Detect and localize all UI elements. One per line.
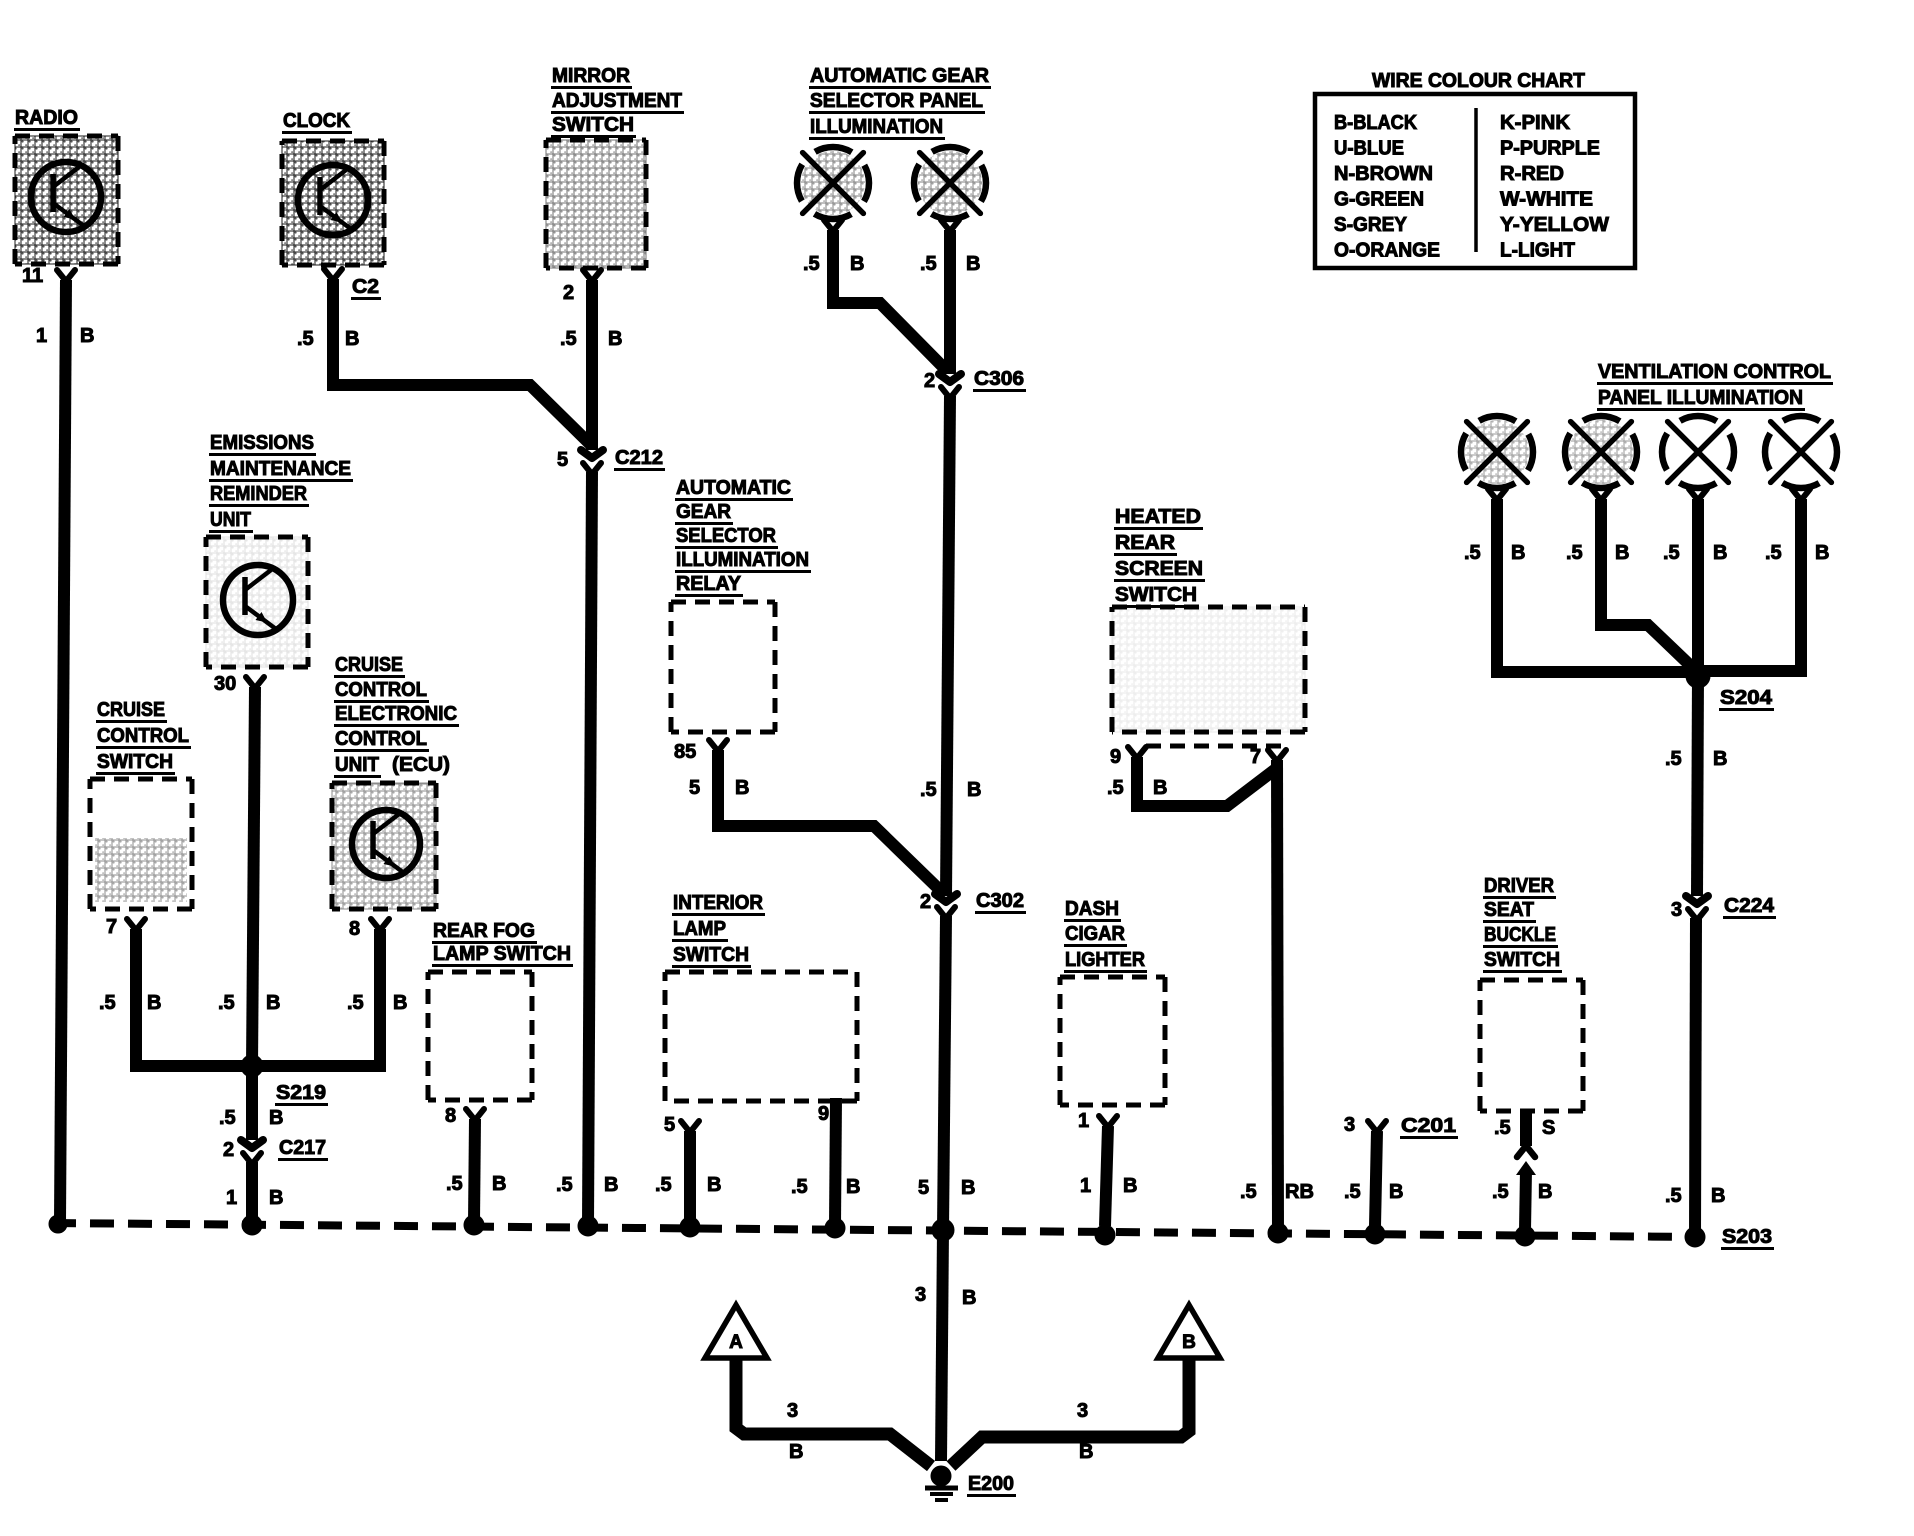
svg-text:.5: .5 <box>1494 1117 1511 1139</box>
svg-text:B: B <box>269 1107 283 1129</box>
svg-text:.5: .5 <box>297 328 314 350</box>
svg-text:1: 1 <box>226 1187 237 1209</box>
svg-text:C212: C212 <box>615 447 663 469</box>
svg-text:CRUISE: CRUISE <box>335 654 403 676</box>
wire C306 to C302, .5 B <box>946 396 950 896</box>
wire cruise ECU to junction S219, .5 B <box>252 929 380 1066</box>
inline splice connector (buckle switch) <box>1516 1147 1536 1175</box>
svg-text:8: 8 <box>445 1105 456 1127</box>
wire C201 to bus, .5 B <box>1375 1131 1377 1226</box>
svg-text:AUTOMATIC GEAR: AUTOMATIC GEAR <box>810 65 990 87</box>
wire pin9 loop to pin7, .5 B <box>1137 757 1277 806</box>
component DASH CIGAR LIGHTER <box>1060 898 1165 1105</box>
svg-text:RADIO: RADIO <box>15 107 78 129</box>
svg-text:30: 30 <box>214 673 236 695</box>
svg-text:B: B <box>1538 1181 1552 1203</box>
vent lamp 1 <box>1461 416 1533 499</box>
bus junction dot (main ground feed) <box>932 1219 954 1241</box>
svg-text:RB: RB <box>1285 1181 1314 1203</box>
svg-text:SWITCH: SWITCH <box>673 944 749 966</box>
wire label .5 S (buckle upper) <box>1494 1117 1555 1139</box>
wire node A to ground E200, 3 B <box>736 1356 931 1466</box>
bus wire S203 (dashed ground distribution) <box>52 1223 1700 1237</box>
svg-text:B: B <box>961 1177 975 1199</box>
component AUTOMATIC GEAR SELECTOR ILLUMINATION RELAY <box>671 477 811 732</box>
svg-text:UNIT: UNIT <box>335 754 379 776</box>
vent lamp 2 <box>1565 416 1637 499</box>
wire label .5 B (C212 to bus) <box>556 1174 618 1196</box>
svg-text:85: 85 <box>674 741 696 763</box>
svg-text:B: B <box>1079 1441 1093 1463</box>
svg-text:2: 2 <box>223 1139 234 1161</box>
svg-text:PANEL ILLUMINATION: PANEL ILLUMINATION <box>1598 387 1803 409</box>
wire emissions unit to junction S219, .5 B <box>252 687 255 1066</box>
svg-text:3: 3 <box>1077 1400 1088 1422</box>
svg-text:9: 9 <box>818 1103 829 1125</box>
svg-text:SWITCH: SWITCH <box>1484 949 1560 971</box>
svg-text:.5: .5 <box>1492 1181 1509 1203</box>
svg-text:.5: .5 <box>1464 542 1481 564</box>
component INTERIOR LAMP SWITCH <box>665 892 857 1101</box>
svg-text:DRIVER: DRIVER <box>1484 875 1555 897</box>
svg-text:B: B <box>608 328 622 350</box>
wire bus junction to ground E200, 3 B <box>941 1230 943 1461</box>
ground E200 <box>925 1466 1016 1500</box>
wire vent lamp3 to junction S204, .5 B <box>1692 499 1704 670</box>
wire label .5 B (lamp1) <box>803 253 864 275</box>
wire label .5 B (clock) <box>297 328 359 350</box>
wire label 1 B (C217 to bus) <box>226 1187 283 1209</box>
svg-text:LAMP: LAMP <box>673 918 726 940</box>
svg-text:INTERIOR: INTERIOR <box>673 892 764 914</box>
svg-text:(ECU): (ECU) <box>392 754 450 776</box>
bus dot at C217 wire <box>242 1215 262 1235</box>
svg-text:2: 2 <box>920 891 931 913</box>
svg-text:B: B <box>962 1287 976 1309</box>
svg-text:B: B <box>1389 1181 1403 1203</box>
component RADIO <box>14 107 118 264</box>
bus dot at C201 wire <box>1365 1224 1385 1244</box>
svg-text:B: B <box>1713 542 1727 564</box>
svg-text:C201: C201 <box>1401 1115 1456 1137</box>
connector C302 <box>920 890 1026 917</box>
svg-text:5: 5 <box>918 1177 929 1199</box>
wire radio pin 11 to bus S203 <box>60 280 66 1222</box>
wire label .5 B (cruise switch) <box>99 992 161 1014</box>
wire label .5 B (C201) <box>1344 1181 1403 1203</box>
svg-text:B: B <box>1713 748 1727 770</box>
svg-text:P-PURPLE: P-PURPLE <box>1500 138 1600 160</box>
svg-text:5: 5 <box>557 449 568 471</box>
component VENTILATION CONTROL PANEL ILLUMINATION lamps <box>1597 361 1833 410</box>
wire label .5 B (interior pin9) <box>791 1176 860 1198</box>
svg-text:.5: .5 <box>219 1107 236 1129</box>
svg-text:B: B <box>393 992 407 1014</box>
wire interior lamp pin5 to bus, .5 B <box>684 1131 696 1224</box>
svg-text:REMINDER: REMINDER <box>210 483 308 505</box>
svg-text:LIGHTER: LIGHTER <box>1065 949 1146 971</box>
svg-text:BUCKLE: BUCKLE <box>1484 924 1556 946</box>
component CLOCK <box>282 110 384 265</box>
svg-text:.5: .5 <box>655 1174 672 1196</box>
svg-text:.5: .5 <box>920 779 937 801</box>
wire S204 to connector C224, .5 B <box>1697 674 1698 896</box>
svg-text:RELAY: RELAY <box>676 573 742 595</box>
wire label 3 B (node A to ground) <box>787 1400 803 1463</box>
svg-text:Y-YELLOW: Y-YELLOW <box>1500 214 1609 236</box>
svg-text:.5: .5 <box>99 992 116 1014</box>
wire label 3 B (node B to ground) <box>1077 1400 1093 1463</box>
wire S219 to connector C217, .5 B <box>246 1066 258 1140</box>
pin 9 (heated rear screen switch) <box>1110 746 1146 768</box>
svg-text:SEAT: SEAT <box>1484 899 1534 921</box>
wire label .5 B (C306 to C302) <box>920 779 981 801</box>
wire label 5 B (relay) <box>689 777 749 799</box>
bus dot at cigar lighter wire <box>1095 1225 1115 1245</box>
wire labels .5 B (vent lamps) <box>1464 542 1829 564</box>
svg-text:SCREEN: SCREEN <box>1115 558 1203 580</box>
connector C212 <box>557 447 665 473</box>
pin 30 (emissions unit) <box>214 673 264 695</box>
wire label 1 B (cigar lighter) <box>1080 1175 1137 1197</box>
svg-text:B: B <box>1153 777 1167 799</box>
svg-text:REAR: REAR <box>1115 532 1176 554</box>
wire buckle splice to bus, .5 B <box>1525 1170 1526 1230</box>
svg-text:S: S <box>1542 1117 1555 1139</box>
svg-text:ILLUMINATION: ILLUMINATION <box>810 116 943 138</box>
svg-text:3: 3 <box>915 1284 926 1306</box>
svg-text:.5: .5 <box>556 1174 573 1196</box>
connector C306 <box>924 368 1026 397</box>
wire label .5 B (cruise ECU) <box>347 992 407 1014</box>
pin 7 (cruise control switch) <box>106 916 145 938</box>
lamp 1 (gear selector panel illumination) <box>797 147 869 230</box>
wire mirror switch to connector C212, .5 B <box>586 280 598 450</box>
pin 8 (rear fog lamp switch) <box>445 1105 484 1127</box>
svg-text:B: B <box>266 992 280 1014</box>
svg-text:B: B <box>850 253 864 275</box>
svg-text:.5: .5 <box>218 992 235 1014</box>
svg-text:B: B <box>147 992 161 1014</box>
svg-text:S219: S219 <box>276 1082 326 1104</box>
svg-text:5: 5 <box>689 777 700 799</box>
svg-text:.5: .5 <box>803 253 820 275</box>
wire C217 to bus S203, 1 B <box>246 1162 258 1224</box>
component MIRROR ADJUSTMENT SWITCH <box>546 65 684 268</box>
wire label .5 B (buckle lower) <box>1492 1181 1552 1203</box>
wire label .5 B (lamp2) <box>920 253 980 275</box>
node S203 (bus right end) <box>1685 1226 1774 1249</box>
svg-text:1: 1 <box>36 325 47 347</box>
svg-text:G-GREEN: G-GREEN <box>1334 189 1424 211</box>
wire lamp2 to C306, .5 B <box>944 230 956 374</box>
svg-text:B: B <box>1711 1185 1725 1207</box>
svg-text:.5: .5 <box>791 1176 808 1198</box>
svg-text:.5: .5 <box>1665 1185 1682 1207</box>
svg-text:.5: .5 <box>1107 777 1124 799</box>
wire rear fog switch to bus S203, .5 B <box>474 1119 475 1222</box>
wire pin7 to bus S203, .5 RB <box>1277 760 1278 1230</box>
svg-text:7: 7 <box>106 916 117 938</box>
svg-text:7: 7 <box>1250 746 1261 768</box>
wire label 1 B (radio) <box>36 325 94 347</box>
svg-text:O-ORANGE: O-ORANGE <box>1334 240 1440 262</box>
wire node B to ground E200, 3 B <box>951 1356 1189 1466</box>
bus dot at heated rear screen wire <box>1268 1223 1288 1243</box>
svg-text:B: B <box>967 779 981 801</box>
svg-text:EMISSIONS: EMISSIONS <box>210 432 314 454</box>
svg-text:ILLUMINATION: ILLUMINATION <box>676 549 809 571</box>
component REAR FOG LAMP SWITCH <box>428 920 573 1100</box>
lamp 2 (gear selector panel illumination) <box>914 147 986 230</box>
component AUTOMATIC GEAR SELECTOR PANEL ILLUMINATION lamps <box>809 65 991 139</box>
svg-text:3: 3 <box>1344 1114 1355 1136</box>
svg-text:B: B <box>1123 1175 1137 1197</box>
wire label .5 B (rear fog) <box>446 1173 506 1195</box>
pin 85 (relay) <box>674 740 727 763</box>
component EMISSIONS MAINTENANCE REMINDER UNIT <box>206 432 353 667</box>
wire cruise switch to junction S219, .5 B <box>136 929 252 1066</box>
svg-text:2: 2 <box>924 370 935 392</box>
svg-text:3: 3 <box>1671 899 1682 921</box>
wire dash cigar lighter to bus, 1 B <box>1105 1126 1108 1226</box>
connector C224 <box>1671 895 1776 921</box>
wire lamp1 to C306, .5 B <box>833 230 948 372</box>
svg-text:B: B <box>966 253 980 275</box>
pin 7 (heated rear screen switch) <box>1250 746 1286 768</box>
svg-text:SWITCH: SWITCH <box>97 751 173 773</box>
svg-text:REAR FOG: REAR FOG <box>433 920 535 942</box>
wire C212 to bus S203, .5 B <box>588 472 592 1224</box>
svg-text:C302: C302 <box>976 890 1024 912</box>
wire colour chart <box>1315 70 1635 268</box>
svg-text:MIRROR: MIRROR <box>552 65 631 87</box>
svg-text:B: B <box>1615 542 1629 564</box>
svg-text:.5: .5 <box>1663 542 1680 564</box>
wire C302 to bus junction, 5 B <box>943 916 946 1230</box>
svg-text:HEATED: HEATED <box>1115 506 1201 528</box>
svg-text:ELECTRONIC: ELECTRONIC <box>335 703 457 725</box>
svg-text:SELECTOR PANEL: SELECTOR PANEL <box>810 90 983 112</box>
bus dot at interior pin5 wire <box>680 1217 700 1237</box>
wire label 3 B (to ground) <box>915 1284 976 1309</box>
pin 5 (interior lamp switch) <box>664 1114 699 1136</box>
svg-text:S204: S204 <box>1720 687 1773 709</box>
svg-text:VENTILATION CONTROL: VENTILATION CONTROL <box>1598 361 1831 383</box>
wire label .5 B (emissions) <box>218 992 280 1014</box>
svg-text:11: 11 <box>22 265 43 287</box>
wire interior lamp pin9 to bus, .5 B <box>835 1098 836 1225</box>
component DRIVER SEAT BUCKLE SWITCH <box>1480 875 1583 1111</box>
svg-text:C224: C224 <box>1724 895 1775 917</box>
pin 1 (dash cigar lighter) <box>1078 1110 1117 1132</box>
svg-text:CRUISE: CRUISE <box>97 699 165 721</box>
svg-text:CLOCK: CLOCK <box>283 110 351 132</box>
svg-text:C2: C2 <box>352 276 379 298</box>
svg-text:B: B <box>269 1187 283 1209</box>
svg-text:SWITCH: SWITCH <box>552 114 634 136</box>
wire label .5 B (S219 to C217) <box>219 1107 283 1129</box>
wire label .5 B (S204 to C224) <box>1665 748 1727 770</box>
svg-text:CONTROL: CONTROL <box>97 725 189 747</box>
connector C217 <box>223 1137 328 1163</box>
bus dot at buckle wire <box>1515 1226 1535 1246</box>
svg-text:W-WHITE: W-WHITE <box>1500 189 1593 211</box>
junction S204 <box>1686 664 1774 710</box>
svg-text:CIGAR: CIGAR <box>1065 923 1126 945</box>
vent lamp 4 <box>1765 416 1837 499</box>
svg-text:B: B <box>345 328 359 350</box>
svg-text:B: B <box>492 1173 506 1195</box>
svg-text:DASH: DASH <box>1065 898 1119 920</box>
svg-text:.5: .5 <box>560 328 577 350</box>
svg-text:.5: .5 <box>1344 1181 1361 1203</box>
wire vent lamp2 to junction S204, .5 B <box>1601 499 1695 670</box>
svg-text:B: B <box>604 1174 618 1196</box>
component CRUISE CONTROL SWITCH <box>90 699 192 909</box>
wire label .5 B (C224 to bus) <box>1665 1185 1725 1207</box>
svg-text:GEAR: GEAR <box>676 501 732 523</box>
svg-text:ADJUSTMENT: ADJUSTMENT <box>552 90 682 112</box>
svg-text:1: 1 <box>1080 1175 1091 1197</box>
pin 8 (cruise ECU) <box>349 918 389 940</box>
svg-text:.5: .5 <box>1566 542 1583 564</box>
component CRUISE CONTROL ELECTRONIC CONTROL UNIT (ECU) <box>332 654 459 909</box>
wire label .5 B (heated rear screen) <box>1107 777 1167 799</box>
wire clock to connector C212, .5 B <box>333 279 592 446</box>
bus dot at rear fog wire <box>464 1215 484 1235</box>
wire label .5 RB (heated rear screen to bus) <box>1240 1181 1314 1203</box>
svg-text:MAINTENANCE: MAINTENANCE <box>210 458 351 480</box>
svg-text:B: B <box>1815 542 1829 564</box>
svg-text:B: B <box>1511 542 1525 564</box>
svg-text:.5: .5 <box>920 253 937 275</box>
svg-text:WIRE COLOUR CHART: WIRE COLOUR CHART <box>1372 70 1585 92</box>
wire relay 85 to C302, 5 B <box>718 750 945 895</box>
svg-text:8: 8 <box>349 918 360 940</box>
svg-text:3: 3 <box>787 1400 798 1422</box>
wire label 5 B (C302 to bus) <box>918 1177 975 1199</box>
wire label .5 B (mirror) <box>560 328 622 350</box>
svg-text:E200: E200 <box>968 1473 1014 1495</box>
component HEATED REAR SCREEN SWITCH <box>1112 506 1305 746</box>
svg-text:2: 2 <box>563 282 574 304</box>
svg-text:S-GREY: S-GREY <box>1334 214 1408 236</box>
svg-text:1: 1 <box>1078 1110 1089 1132</box>
node A (sheet link triangle) <box>705 1305 767 1358</box>
svg-text:CONTROL: CONTROL <box>335 728 427 750</box>
svg-text:B: B <box>735 777 749 799</box>
svg-text:.5: .5 <box>1665 748 1682 770</box>
node B (sheet link triangle) <box>1158 1305 1220 1358</box>
svg-text:C306: C306 <box>974 368 1024 390</box>
wire C224 to bus S203, .5 B <box>1695 918 1696 1235</box>
svg-text:R-RED: R-RED <box>1500 163 1564 185</box>
svg-text:9: 9 <box>1110 746 1121 768</box>
svg-text:K-PINK: K-PINK <box>1500 112 1571 134</box>
svg-text:AUTOMATIC: AUTOMATIC <box>676 477 791 499</box>
svg-text:U-BLUE: U-BLUE <box>1334 138 1404 160</box>
svg-text:SELECTOR: SELECTOR <box>676 525 777 547</box>
svg-text:.5: .5 <box>446 1173 463 1195</box>
wire buckle switch upper, .5 S <box>1520 1111 1532 1146</box>
pin 2 (mirror adjustment switch) <box>563 270 601 304</box>
wire label .5 B (interior pin5) <box>655 1174 721 1196</box>
svg-text:B: B <box>789 1441 803 1463</box>
svg-text:N-BROWN: N-BROWN <box>1334 163 1433 185</box>
svg-text:.5: .5 <box>347 992 364 1014</box>
svg-text:C217: C217 <box>279 1137 326 1159</box>
bus dot at interior pin9 wire <box>825 1218 845 1238</box>
svg-text:A: A <box>729 1332 743 1353</box>
svg-text:B-BLACK: B-BLACK <box>1334 112 1418 134</box>
svg-text:SWITCH: SWITCH <box>1115 584 1197 606</box>
pin 11 (radio) <box>22 265 75 287</box>
vent lamp 3 <box>1662 416 1734 499</box>
svg-text:B: B <box>846 1176 860 1198</box>
connector C201 pigtail <box>1344 1114 1458 1138</box>
svg-text:B: B <box>80 325 94 347</box>
svg-text:CONTROL: CONTROL <box>335 679 427 701</box>
svg-text:B: B <box>707 1174 721 1196</box>
svg-text:UNIT: UNIT <box>210 509 251 531</box>
svg-text:L-LIGHT: L-LIGHT <box>1500 240 1575 262</box>
svg-text:S203: S203 <box>1722 1226 1772 1248</box>
bus dot at mirror wire <box>578 1216 598 1236</box>
svg-text:B: B <box>1182 1332 1196 1353</box>
pin C2 (clock) <box>324 269 381 299</box>
junction S219 <box>241 1055 328 1105</box>
svg-text:LAMP SWITCH: LAMP SWITCH <box>433 943 571 965</box>
svg-text:.5: .5 <box>1765 542 1782 564</box>
bus left end dot <box>49 1215 67 1233</box>
wire vent lamp1 to junction S204, .5 B <box>1497 499 1693 672</box>
svg-text:5: 5 <box>664 1114 675 1136</box>
wire vent lamp4 to junction S204, .5 B <box>1703 499 1801 671</box>
svg-text:.5: .5 <box>1240 1181 1257 1203</box>
